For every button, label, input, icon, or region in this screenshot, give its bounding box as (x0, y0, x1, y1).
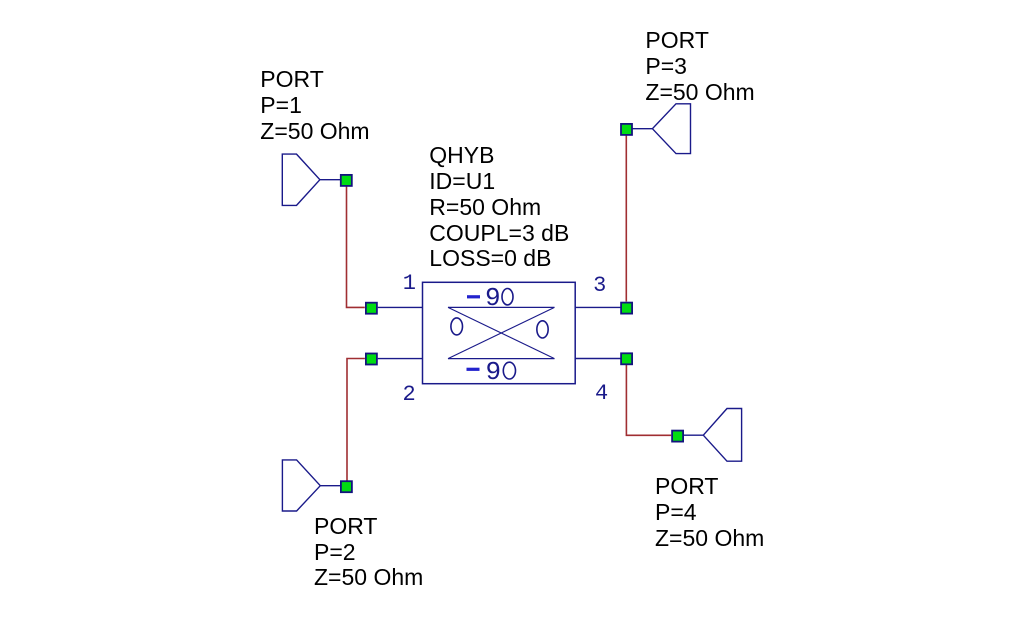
node terminal at port P2 (341, 481, 352, 492)
pin 3 stub wire (575, 306, 620, 308)
port P4 label (655, 474, 764, 552)
hybrid U1 box outline (423, 282, 576, 383)
port P1 label (260, 67, 369, 145)
node N2 at U1 pin 2 (366, 354, 377, 365)
port P3 label (645, 28, 754, 106)
value label bottom -90: digit 0 (ellipse) (503, 362, 515, 379)
value label top -90: digit 0 (ellipse) (502, 289, 513, 305)
pin 1 stub wire (378, 306, 423, 308)
port P2 label (314, 514, 423, 592)
minus sign of bottom -90 value (467, 368, 480, 371)
U1 inner top through line (448, 306, 555, 308)
pin 2 stub wire (378, 358, 423, 360)
node N1 at U1 pin 1 (366, 303, 377, 314)
node N3 at U1 pin 3 (621, 303, 632, 314)
node terminal at port P1 (341, 175, 352, 186)
pin number 1 (403, 273, 416, 294)
node N4 at U1 pin 4 (621, 353, 632, 364)
wire W3 (port3 to pin3 node, red) (625, 134, 627, 301)
U1 cross diagonal 2 (448, 307, 555, 358)
pin number 3 (593, 275, 606, 296)
value label bottom -90: digit 9 (486, 359, 502, 385)
value label left 0 (ellipse) (451, 318, 463, 335)
value label top -90: digit 9 (485, 285, 501, 311)
port P1 symbol (282, 154, 340, 205)
minus sign of top -90 value (467, 295, 480, 298)
port P4 symbol (684, 409, 742, 462)
pin number 2 (403, 384, 416, 405)
pin number 4 (595, 383, 608, 404)
wire W1 (port1 to pin1 node, red) (347, 185, 365, 307)
pin 4 stub wire (575, 358, 620, 360)
node terminal at port P4 (672, 431, 683, 442)
port P3 symbol (632, 104, 690, 154)
value label right 0 (ellipse) (537, 321, 548, 338)
U1 inner bottom through line (448, 358, 555, 360)
wire W4 (pin4 node to port4, red) (626, 365, 671, 436)
node terminal at port P3 (621, 124, 632, 135)
wire W2 (pin2 node to port2, red) (347, 359, 365, 481)
U1 cross diagonal 1 (448, 307, 555, 358)
port P2 symbol (282, 460, 340, 511)
hybrid U1 parameter label (429, 143, 569, 273)
